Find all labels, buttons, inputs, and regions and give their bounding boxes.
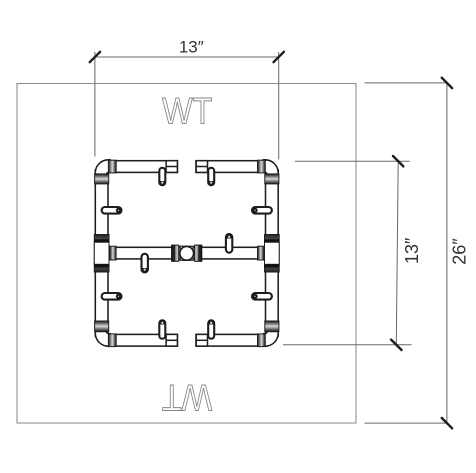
svg-text:13″: 13″ [179,38,204,57]
svg-text:26″: 26″ [450,238,470,265]
svg-text:WT: WT [162,90,212,132]
svg-text:13″: 13″ [402,237,422,264]
svg-text:WT: WT [162,376,212,418]
